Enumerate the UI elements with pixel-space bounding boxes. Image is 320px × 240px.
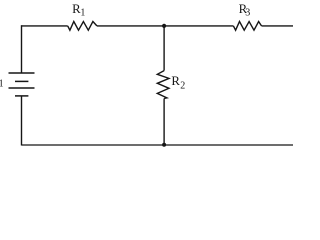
wire R1 to node A [97,25,164,27]
svg-text:3: 3 [245,8,250,19]
svg-text:2: 2 [180,81,185,92]
wire left vertical (top corner to battery) [21,25,23,73]
battery B1 plate long lower [9,87,35,89]
node B junction dot (bottom) [162,143,166,147]
resistor R2 [157,71,169,99]
resistor R1 [68,22,97,31]
battery B1 plate long top [9,72,35,74]
svg-text:1: 1 [80,8,85,19]
node A junction dot (top) [162,24,166,28]
wire battery to bottom-left corner [21,96,23,146]
battery B1 plate short bottom [15,95,28,97]
wire top-left horizontal (battery + to R1) [22,25,68,27]
wire bottom horizontal (full width) [22,144,294,146]
svg-text:1: 1 [0,79,4,90]
battery B1 plate short [15,80,28,82]
wire R3 to right edge [262,25,294,27]
resistor R3 [233,22,261,31]
svg-text:R: R [171,74,180,88]
wire node A to R3 [164,25,233,27]
wire R2 to node B [163,99,165,146]
wire node A down to R2 [163,26,165,71]
